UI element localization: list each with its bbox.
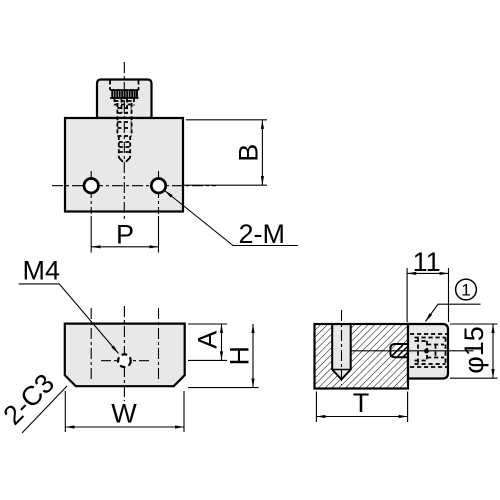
horizontal axis centerline — [351, 350, 474, 352]
M4 threaded hole (dashed circle) — [118, 354, 131, 367]
svg-text:H: H — [225, 346, 255, 366]
svg-text:1: 1 — [461, 281, 470, 300]
centerline middle — [123, 306, 125, 401]
svg-text:11: 11 — [413, 247, 441, 277]
dog point of set screw — [390, 344, 409, 357]
balloon leader — [426, 304, 481, 321]
dimension W extension lines — [65, 391, 184, 432]
leader M4 — [19, 284, 119, 354]
vertical centerline of screw (top view) — [123, 62, 125, 222]
dimension P extension lines — [91, 216, 158, 253]
svg-text:P: P — [116, 220, 134, 250]
set screw hidden lines — [410, 334, 448, 367]
dimension A line — [221, 324, 223, 360]
svg-text:B: B — [234, 144, 264, 162]
dimension H extension line bottom — [188, 387, 259, 389]
svg-text:2-M: 2-M — [239, 219, 286, 249]
dog point inner hatch marks — [393, 345, 410, 357]
hole centerline left — [90, 171, 92, 214]
dimension phi15 extension lines — [450, 324, 498, 378]
hex socket center dot — [424, 349, 429, 354]
dimension B extension lines — [182, 120, 267, 185]
centerline left hole axis — [90, 308, 92, 381]
svg-text:φ15: φ15 — [459, 326, 489, 374]
hole left — [84, 179, 98, 193]
boss on top of block — [97, 80, 152, 119]
dimension 11 extension lines — [407, 268, 448, 322]
boss (cylinder phi15) — [408, 324, 448, 379]
svg-text:M4: M4 — [23, 256, 61, 286]
svg-text:T: T — [353, 388, 370, 418]
dimension phi15 line — [492, 324, 494, 378]
vertical blind hole — [332, 324, 351, 379]
screw head knurling — [112, 90, 137, 98]
svg-text:W: W — [111, 399, 137, 429]
dimension T line — [316, 416, 407, 418]
dimension 11 line — [407, 272, 448, 274]
dimension P line — [91, 246, 158, 248]
leader 2-C3 — [22, 386, 67, 433]
balloon 1 circle — [456, 279, 477, 300]
hole centerline right — [158, 171, 160, 214]
hidden screw head sides — [110, 81, 139, 158]
hidden screw tip taper — [119, 158, 130, 164]
horizontal centerline through M4 hole — [101, 360, 150, 362]
hole right — [151, 179, 165, 193]
dimension W line — [65, 426, 184, 428]
screw head knurl band edges — [111, 90, 138, 98]
dimension T extension lines — [316, 392, 407, 423]
svg-text:A: A — [193, 331, 223, 349]
horizontal centerline through holes — [52, 185, 216, 187]
dimension H line — [252, 324, 254, 388]
section block border — [315, 324, 409, 389]
section block hatched — [315, 324, 409, 389]
vertical hole centerline — [341, 310, 343, 385]
dimension B line — [261, 120, 263, 185]
centerline right hole axis — [158, 308, 160, 381]
leader 2-M — [165, 191, 299, 246]
front block with chamfers — [65, 324, 185, 387]
dimension A extension lines — [188, 324, 227, 360]
main block (top view) — [65, 118, 183, 212]
